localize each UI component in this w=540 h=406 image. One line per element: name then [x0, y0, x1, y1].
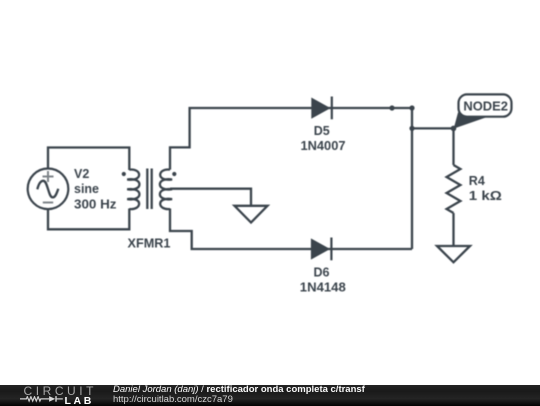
- svg-text:D5: D5: [314, 124, 330, 138]
- svg-text:1 kΩ: 1 kΩ: [469, 189, 502, 203]
- svg-text:R4: R4: [469, 174, 485, 188]
- svg-text:V2: V2: [74, 167, 89, 181]
- svg-text:1N4148: 1N4148: [300, 281, 346, 295]
- svg-text:NODE2: NODE2: [463, 99, 508, 113]
- svg-text:1N4007: 1N4007: [301, 139, 346, 153]
- svg-text:sine: sine: [74, 182, 99, 196]
- svg-text:300 Hz: 300 Hz: [74, 197, 117, 211]
- svg-text:XFMR1: XFMR1: [128, 236, 171, 250]
- svg-text:D6: D6: [314, 265, 330, 279]
